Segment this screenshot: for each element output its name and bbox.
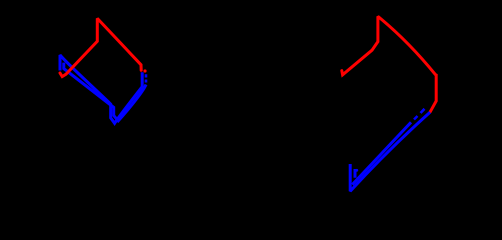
right arrow: blue inner dot [355, 169, 358, 172]
right arrow: red tail stroke [342, 16, 436, 112]
left arrow: blue shaft pass 2 [64, 63, 146, 121]
right arrow: blue shaft pass 1 [350, 112, 430, 191]
left arrow: red tail stroke [60, 18, 141, 76]
right arrow: blue shaft pass 2 [352, 122, 411, 184]
left arrow: blue shaft pass 1 [60, 55, 142, 123]
left arrow: red start dot [143, 69, 146, 72]
right arrow: blue dashed shaft fragments [414, 109, 425, 120]
left arrow: blue dashed cap fragments [145, 74, 148, 82]
